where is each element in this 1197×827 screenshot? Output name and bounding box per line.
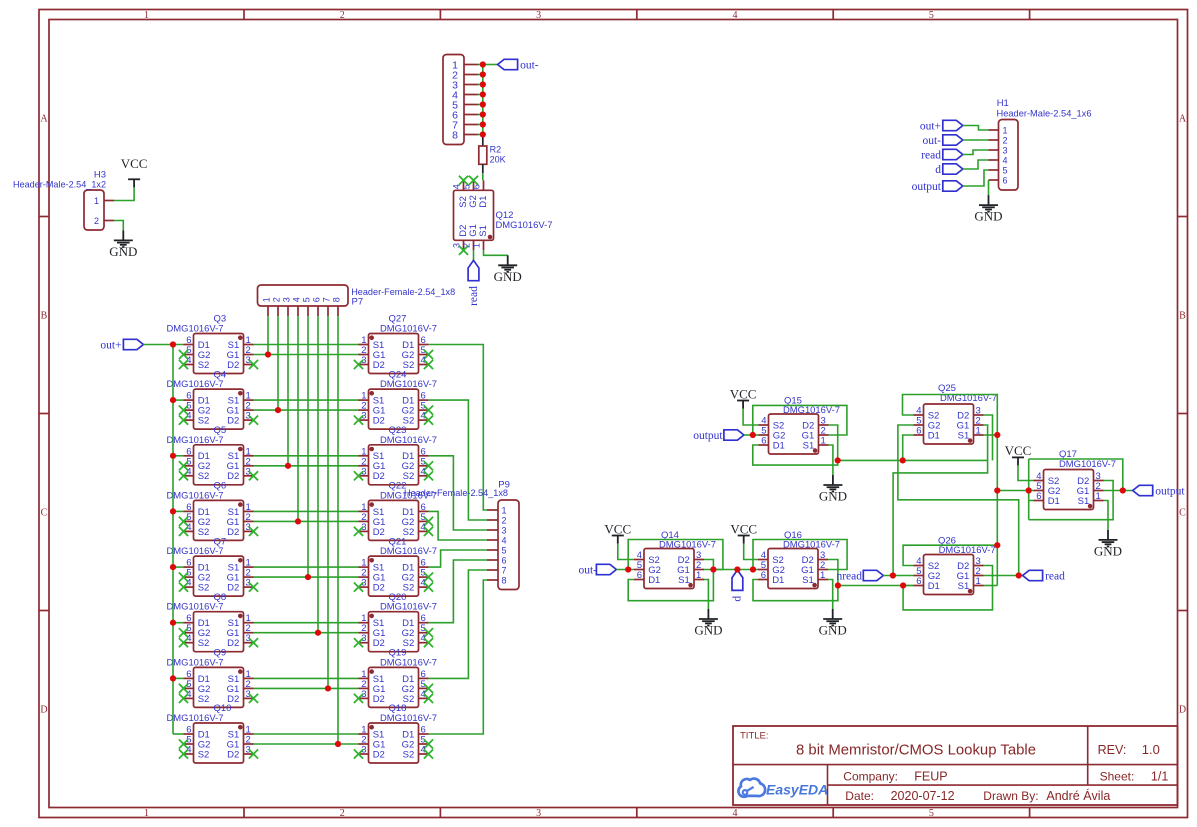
net flag read at Q12 [468, 260, 480, 306]
wire S net to Q17 G2 [997, 490, 1033, 492]
Q10 pin 1 (S1) [228, 725, 254, 741]
svg-text:read: read [468, 286, 480, 306]
svg-text:1: 1 [976, 426, 981, 437]
wire Q15 D loop [753, 425, 838, 465]
transistor Q6 body [194, 500, 244, 540]
wire VCC to Q15 pin4 [743, 409, 758, 426]
svg-text:2: 2 [502, 516, 507, 526]
wire J1 pin 4 to bus [478, 94, 483, 96]
junction S net at Q17 G row [994, 487, 1000, 493]
svg-text:S2: S2 [198, 583, 210, 594]
wire d net [713, 569, 758, 571]
wire Q12 G1 to read flag [473, 250, 475, 260]
Q27 pin 3 (D2) [354, 355, 385, 371]
svg-text:S2: S2 [198, 694, 210, 705]
svg-text:4: 4 [1003, 156, 1008, 166]
frame column labels [144, 10, 934, 819]
svg-text:D2: D2 [373, 583, 385, 594]
svg-text:6: 6 [761, 436, 766, 447]
Q5 pin 1 (S1) [228, 446, 254, 462]
transistor Q3 body [194, 334, 244, 374]
Q16 pin 1 (S1) [802, 570, 828, 586]
svg-text:1: 1 [976, 576, 981, 587]
svg-text:D2: D2 [227, 416, 239, 427]
wire Q17 left vertical [1028, 459, 1030, 520]
wire Q16 D net to Q26 D1 [838, 585, 914, 587]
Q25 pin 1 (S1) [958, 426, 984, 442]
Q22 pin 4 (S2) [403, 522, 433, 538]
svg-text:DMG1016V-7: DMG1016V-7 [783, 540, 840, 551]
svg-text:1: 1 [471, 243, 481, 248]
Q21 pin 2 (G1) [359, 568, 386, 584]
wire Q25 pin1 to S net [984, 434, 998, 436]
svg-text:DMG1016V-7: DMG1016V-7 [167, 379, 224, 390]
svg-text:S2: S2 [198, 749, 210, 760]
Q5 pin 6 (D1) [184, 446, 210, 462]
svg-text:4: 4 [291, 297, 301, 302]
svg-text:B: B [41, 311, 48, 322]
junction at J1 pin 2 [480, 71, 486, 77]
transistor Q26 body [924, 555, 974, 595]
Q20 pin 2 (G1) [359, 623, 386, 639]
Q24 pin 1 (S1) [359, 391, 385, 407]
wire R2 to Q12 pin6 [482, 173, 484, 180]
svg-text:D2: D2 [373, 694, 385, 705]
svg-text:D1: D1 [478, 196, 489, 208]
Q5 pin 2 (G1) [227, 456, 254, 472]
svg-text:Header-Male-2.54_1x6: Header-Male-2.54_1x6 [997, 108, 1092, 119]
wire out- to H1 pin2 [963, 139, 989, 141]
junction S net at Q26 loop [994, 542, 1000, 548]
wire Q16 D loop [753, 560, 838, 601]
wire row 4 G1-G1 horizontal [254, 520, 359, 522]
VCC symbol at Q15 [730, 386, 757, 408]
junction Q25 S net [994, 432, 1000, 438]
svg-text:read: read [921, 149, 941, 161]
svg-text:DMG1016V-7: DMG1016V-7 [380, 602, 437, 613]
svg-text:GND: GND [109, 244, 137, 259]
svg-text:5: 5 [1003, 166, 1008, 176]
P7 pin 5 [301, 297, 311, 316]
svg-text:4: 4 [733, 10, 738, 21]
Q7 pin 2 (G1) [227, 568, 254, 584]
svg-text:DMG1016V-7: DMG1016V-7 [939, 545, 996, 556]
Q24 pin 3 (D2) [354, 411, 385, 427]
Q4 pin 5 (G2) [179, 401, 210, 417]
wire nread to Q26 G2 [883, 575, 913, 577]
Q17 pin 2 (G1) [1077, 481, 1104, 497]
Q27 pin 1 (S1) [359, 335, 385, 351]
P7 pin 4 [291, 297, 301, 316]
svg-text:2: 2 [1003, 136, 1008, 146]
svg-text:EasyEDA: EasyEDA [766, 782, 828, 798]
wire row 8 S1-S1 horizontal [254, 733, 359, 735]
wire Q15 S1 to GND [829, 445, 833, 475]
svg-text:4: 4 [502, 536, 507, 546]
Q19 pin 6 (D1) [402, 669, 428, 685]
wire stub to Q9 pin6 [173, 677, 184, 679]
Q8 pin 1 (S1) [228, 613, 254, 629]
junction P7 line 8 at row 8 [335, 741, 341, 747]
H1 pin 6 [989, 176, 1008, 186]
wire row 3 G1-G1 horizontal [254, 465, 359, 467]
svg-text:D2: D2 [373, 527, 385, 538]
Q8 pin 3 (D2) [227, 633, 258, 649]
svg-text:S1: S1 [1078, 496, 1090, 507]
Q7 pin 6 (D1) [184, 558, 210, 574]
H1 pin 5 [989, 166, 1008, 176]
ground at H1 [974, 195, 1002, 224]
Q9 pin 4 (S2) [179, 689, 209, 705]
net flag output at Q15 [693, 430, 744, 442]
svg-text:D2: D2 [227, 749, 239, 760]
wire out+ to H1 pin1 [963, 126, 989, 131]
EasyEDA logo [738, 779, 828, 798]
Q7 pin 4 (S2) [179, 578, 209, 594]
Q3 pin 2 (G1) [227, 345, 254, 361]
svg-text:DMG1016V-7: DMG1016V-7 [496, 220, 553, 231]
svg-text:D2: D2 [227, 583, 239, 594]
Q3 pin 4 (S2) [179, 355, 209, 371]
transistor Q5 body [194, 445, 244, 485]
P9 pin 5 [487, 546, 507, 556]
svg-text:R2: R2 [490, 145, 502, 155]
H1 pin 1 [989, 126, 1008, 136]
Q25 pin 4 (S2) [914, 406, 940, 422]
wire VCC to Q14 pin4 [618, 544, 634, 560]
svg-text:6: 6 [916, 576, 921, 587]
svg-text:D1: D1 [928, 581, 940, 592]
Q19 pin 1 (S1) [359, 669, 385, 685]
svg-text:D2: D2 [227, 527, 239, 538]
svg-text:1/1: 1/1 [1151, 770, 1168, 784]
svg-text:S1: S1 [802, 575, 814, 586]
transistor Q7 body [194, 556, 244, 596]
svg-text:S1: S1 [478, 225, 489, 237]
P9 pin 1 [487, 506, 507, 516]
wire Q14 D loop [628, 560, 713, 601]
Q18 pin 1 (S1) [359, 725, 385, 741]
svg-text:1: 1 [820, 570, 825, 581]
net flag output at Q17 [1133, 485, 1186, 497]
junction left bus row 6 [170, 620, 176, 626]
transistor Q21 body [369, 556, 419, 596]
wire d to H1 pin4 [963, 160, 989, 169]
H1 pin 4 [989, 156, 1008, 166]
svg-text:5: 5 [301, 297, 311, 302]
wire J1 pin 7 to bus [478, 124, 483, 126]
svg-text:DMG1016V-7: DMG1016V-7 [783, 405, 840, 416]
wire P7 pin 2 vertical [277, 316, 279, 410]
Q10 pin 6 (D1) [184, 725, 210, 741]
Q26 pin 4 (S2) [914, 556, 940, 572]
svg-text:GND: GND [819, 623, 847, 638]
P7 pin 6 [311, 297, 321, 316]
wire Q20 pin6 to P9 pin 6 [429, 560, 488, 623]
Q8 pin 4 (S2) [179, 633, 209, 649]
wire P7 pin 1 vertical [267, 316, 269, 355]
junction P7 line 2 at row 2 [275, 407, 281, 413]
svg-text:P7: P7 [352, 297, 364, 308]
Q20 pin 3 (D2) [354, 633, 385, 649]
svg-text:output: output [1155, 485, 1185, 497]
Q23 pin 6 (D1) [402, 446, 428, 462]
svg-text:A: A [1179, 114, 1187, 125]
svg-text:Header-Male-2.54_1x2: Header-Male-2.54_1x2 [13, 180, 106, 191]
wire row 2 G1-G1 horizontal [254, 409, 359, 411]
Q12 pin 5 (G2) [461, 176, 479, 208]
Q24 pin 2 (G1) [359, 401, 386, 417]
svg-text:out-: out- [520, 59, 539, 71]
svg-text:6: 6 [502, 556, 507, 566]
net flag d at H1 [935, 164, 963, 176]
Q16 pin 5 (G2) [758, 560, 785, 576]
wire stub to Q10 pin6 [173, 733, 184, 735]
junction at Q17 output [1120, 487, 1126, 493]
junction at Q26 D1 [900, 582, 906, 588]
Q6 pin 3 (D2) [227, 522, 258, 538]
transistor Q27 body [369, 334, 419, 374]
Q3 pin 6 (D1) [184, 335, 210, 351]
wire row 4 S1-S1 horizontal [254, 510, 359, 512]
wire P7 pin 8 vertical [337, 316, 339, 744]
Q25 pin 2 (G1) [957, 416, 984, 432]
wire Q27 pin6 to P9 pin 1 [429, 345, 488, 511]
P9 pin 6 [487, 556, 507, 566]
transistor Q24 body [369, 389, 419, 429]
svg-text:DMG1016V-7: DMG1016V-7 [167, 602, 224, 613]
junction at Q16 D net [835, 582, 841, 588]
ground at Q14 [694, 609, 722, 638]
svg-text:2: 2 [461, 243, 471, 248]
svg-text:1: 1 [1003, 126, 1008, 136]
svg-text:Header-Female-2.54_1x8: Header-Female-2.54_1x8 [404, 488, 508, 499]
Q14 pin 1 (S1) [678, 570, 704, 586]
svg-text:4: 4 [733, 808, 738, 819]
svg-text:FEUP: FEUP [914, 770, 947, 784]
svg-text:DMG1016V-7: DMG1016V-7 [167, 324, 224, 335]
wire read to H1 pin3 [963, 150, 989, 155]
junction at J1 pin 4 [480, 91, 486, 97]
transistor Q15 body [769, 414, 819, 454]
wire Q25 S2 top loop [903, 395, 998, 436]
connector H1 body [999, 120, 1019, 191]
wire Q26 S2 top loop [903, 545, 997, 565]
wire J1 pin 6 to bus [478, 114, 483, 116]
svg-text:D1: D1 [1048, 496, 1060, 507]
svg-text:DMG1016V-7: DMG1016V-7 [380, 657, 437, 668]
svg-text:3: 3 [536, 10, 541, 21]
svg-text:S1: S1 [678, 575, 690, 586]
svg-text:2: 2 [340, 10, 345, 21]
svg-text:1: 1 [94, 196, 99, 206]
Q20 pin 6 (D1) [402, 613, 428, 629]
junction P7 line 1 at row 1 [265, 351, 271, 357]
ground at Q16 [819, 609, 847, 638]
wire Q15 D net to Q25 [838, 459, 988, 461]
junction at J1 pin 6 [480, 111, 486, 117]
svg-text:1: 1 [144, 10, 149, 21]
junction left bus row 2 [170, 397, 176, 403]
svg-text:S2: S2 [403, 749, 415, 760]
Q6 pin 6 (D1) [184, 502, 210, 518]
Q6 pin 5 (G2) [179, 512, 210, 528]
transistor Q16 body [768, 549, 818, 589]
svg-text:20K: 20K [490, 155, 506, 165]
J1 pin 2 [452, 69, 478, 81]
net flag read at Q26 [1023, 570, 1066, 582]
Q26 pin 5 (G2) [914, 566, 941, 582]
Q25 pin 6 (D1) [914, 426, 940, 442]
wire Q26 S1 to S net [984, 585, 998, 587]
wire P7 pin 6 vertical [317, 316, 319, 633]
svg-text:D: D [40, 705, 47, 716]
svg-text:Header-Female-2.54_1x8: Header-Female-2.54_1x8 [351, 287, 455, 298]
Q17 pin 4 (S2) [1034, 471, 1060, 487]
Q12 pin 2 (G1) [461, 224, 479, 250]
Q14 pin 6 (D1) [634, 570, 660, 586]
junction at Q15 D net [835, 457, 841, 463]
P7 pin 3 [281, 297, 291, 316]
Q7 pin 5 (G2) [179, 568, 210, 584]
svg-text:6: 6 [311, 297, 321, 302]
svg-text:DMG1016V-7: DMG1016V-7 [167, 657, 224, 668]
Q10 pin 5 (G2) [179, 735, 210, 751]
Q14 pin 2 (G1) [677, 560, 704, 576]
svg-text:out-: out- [922, 135, 941, 147]
junction at J1 pin 5 [480, 101, 486, 107]
Q10 pin 3 (D2) [227, 745, 258, 761]
wire VCC to Q16 pin4 [744, 544, 758, 560]
Q10 pin 4 (S2) [179, 745, 209, 761]
junction Q25 D1 tap [900, 457, 906, 463]
svg-text:1: 1 [696, 570, 701, 581]
svg-text:6: 6 [761, 570, 766, 581]
svg-text:S2: S2 [198, 527, 210, 538]
wire Q17 top loop [1029, 459, 1123, 491]
J1 pin 3 [452, 79, 478, 91]
wire J1 pin 3 to bus [478, 84, 483, 86]
Q20 pin 5 (G2) [402, 623, 433, 639]
title block border [733, 726, 1178, 805]
junction at J1 pin 7 [480, 121, 486, 127]
Q14 pin 3 (D2) [678, 550, 704, 566]
wire stub to Q5 pin6 [173, 455, 184, 457]
svg-text:D1: D1 [773, 440, 785, 451]
Q9 pin 1 (S1) [228, 669, 254, 685]
Q23 pin 2 (G1) [359, 456, 386, 472]
svg-text:S2: S2 [198, 471, 210, 482]
wire Q26 D loop [903, 566, 992, 610]
Q17 pin 3 (D2) [1077, 471, 1103, 487]
transistor Q20 body [369, 612, 419, 652]
Q21 pin 4 (S2) [403, 578, 433, 594]
svg-text:D2: D2 [227, 471, 239, 482]
svg-text:S1: S1 [958, 581, 970, 592]
net flag out+ at H1 [920, 120, 963, 132]
Q4 pin 3 (D2) [227, 411, 258, 427]
Q19 pin 3 (D2) [354, 689, 385, 705]
wire VCC to Q17 pin4 [1018, 465, 1034, 480]
wire Q26 G1 to read flag [984, 575, 1023, 577]
svg-text:3: 3 [536, 808, 541, 819]
svg-text:1: 1 [144, 808, 149, 819]
transistor Q8 body [194, 612, 244, 652]
wire row 6 S1-S1 horizontal [254, 622, 359, 624]
wire Q15 G loop [753, 405, 847, 435]
wire out- to Q14 pin5 [616, 569, 634, 571]
VCC symbol at Q14 [604, 521, 631, 543]
svg-text:DMG1016V-7: DMG1016V-7 [380, 379, 437, 390]
junction left bus row 1 [170, 341, 176, 347]
Q18 pin 5 (G2) [402, 735, 433, 751]
junction P7 line 6 at row 6 [315, 630, 321, 636]
wire output flag to Q15 pin5 [744, 434, 759, 436]
svg-text:7: 7 [321, 297, 331, 302]
svg-text:6: 6 [471, 184, 481, 189]
svg-text:output: output [693, 430, 723, 442]
Q6 pin 1 (S1) [228, 502, 254, 518]
svg-text:2: 2 [340, 808, 345, 819]
svg-text:1: 1 [1096, 491, 1101, 502]
Q21 pin 5 (G2) [402, 568, 433, 584]
svg-text:S1: S1 [958, 430, 970, 441]
wire stub to Q6 pin6 [173, 510, 184, 512]
Q23 pin 4 (S2) [403, 466, 433, 482]
Q18 pin 6 (D1) [402, 725, 428, 741]
transistor Q10 body [194, 723, 244, 763]
Q21 pin 3 (D2) [354, 578, 385, 594]
svg-text:out+: out+ [920, 120, 941, 132]
svg-text:Date:: Date: [845, 789, 874, 803]
Q9 pin 6 (D1) [184, 669, 210, 685]
svg-text:D1: D1 [772, 575, 784, 586]
wire H3 pin2 to GND [114, 221, 123, 231]
J1 pin 7 [452, 119, 478, 131]
transistor Q12 body [454, 190, 494, 240]
junction at Q16 G2 [750, 566, 756, 572]
wire Q25 D2 down [984, 415, 993, 460]
svg-text:7: 7 [502, 566, 507, 576]
svg-text:DMG1016V-7: DMG1016V-7 [167, 490, 224, 501]
Q4 pin 2 (G1) [227, 401, 254, 417]
wire row 5 G1-G1 horizontal [254, 576, 359, 578]
svg-text:VCC: VCC [730, 386, 757, 401]
Q5 pin 5 (G2) [179, 456, 210, 472]
svg-text:DMG1016V-7: DMG1016V-7 [380, 324, 437, 335]
Q6 pin 2 (G1) [227, 512, 254, 528]
wire row 1 G1-G1 horizontal [254, 354, 359, 356]
Q25 pin 3 (D2) [957, 406, 983, 422]
svg-text:2020-07-12: 2020-07-12 [891, 789, 955, 803]
net flag out+ at Q3 [100, 339, 143, 351]
Q16 pin 4 (S2) [758, 550, 784, 566]
wire Q25 D1 to D net [903, 435, 914, 460]
svg-text:Company:: Company: [843, 770, 898, 784]
Q18 pin 4 (S2) [403, 745, 433, 761]
Q25 pin 5 (G2) [914, 416, 941, 432]
J1 pin 8 [452, 129, 478, 141]
wire row 3 S1-S1 horizontal [254, 455, 359, 457]
svg-text:1: 1 [261, 297, 271, 302]
Q17 pin 5 (G2) [1034, 481, 1061, 497]
svg-text:5: 5 [502, 546, 507, 556]
J1 pin 5 [452, 99, 478, 111]
wire Q22 pin6 to P9 pin 4 [429, 511, 488, 540]
H1 pin 3 [989, 146, 1008, 156]
Q22 pin 2 (G1) [359, 512, 386, 528]
Q5 pin 3 (D2) [227, 466, 258, 482]
